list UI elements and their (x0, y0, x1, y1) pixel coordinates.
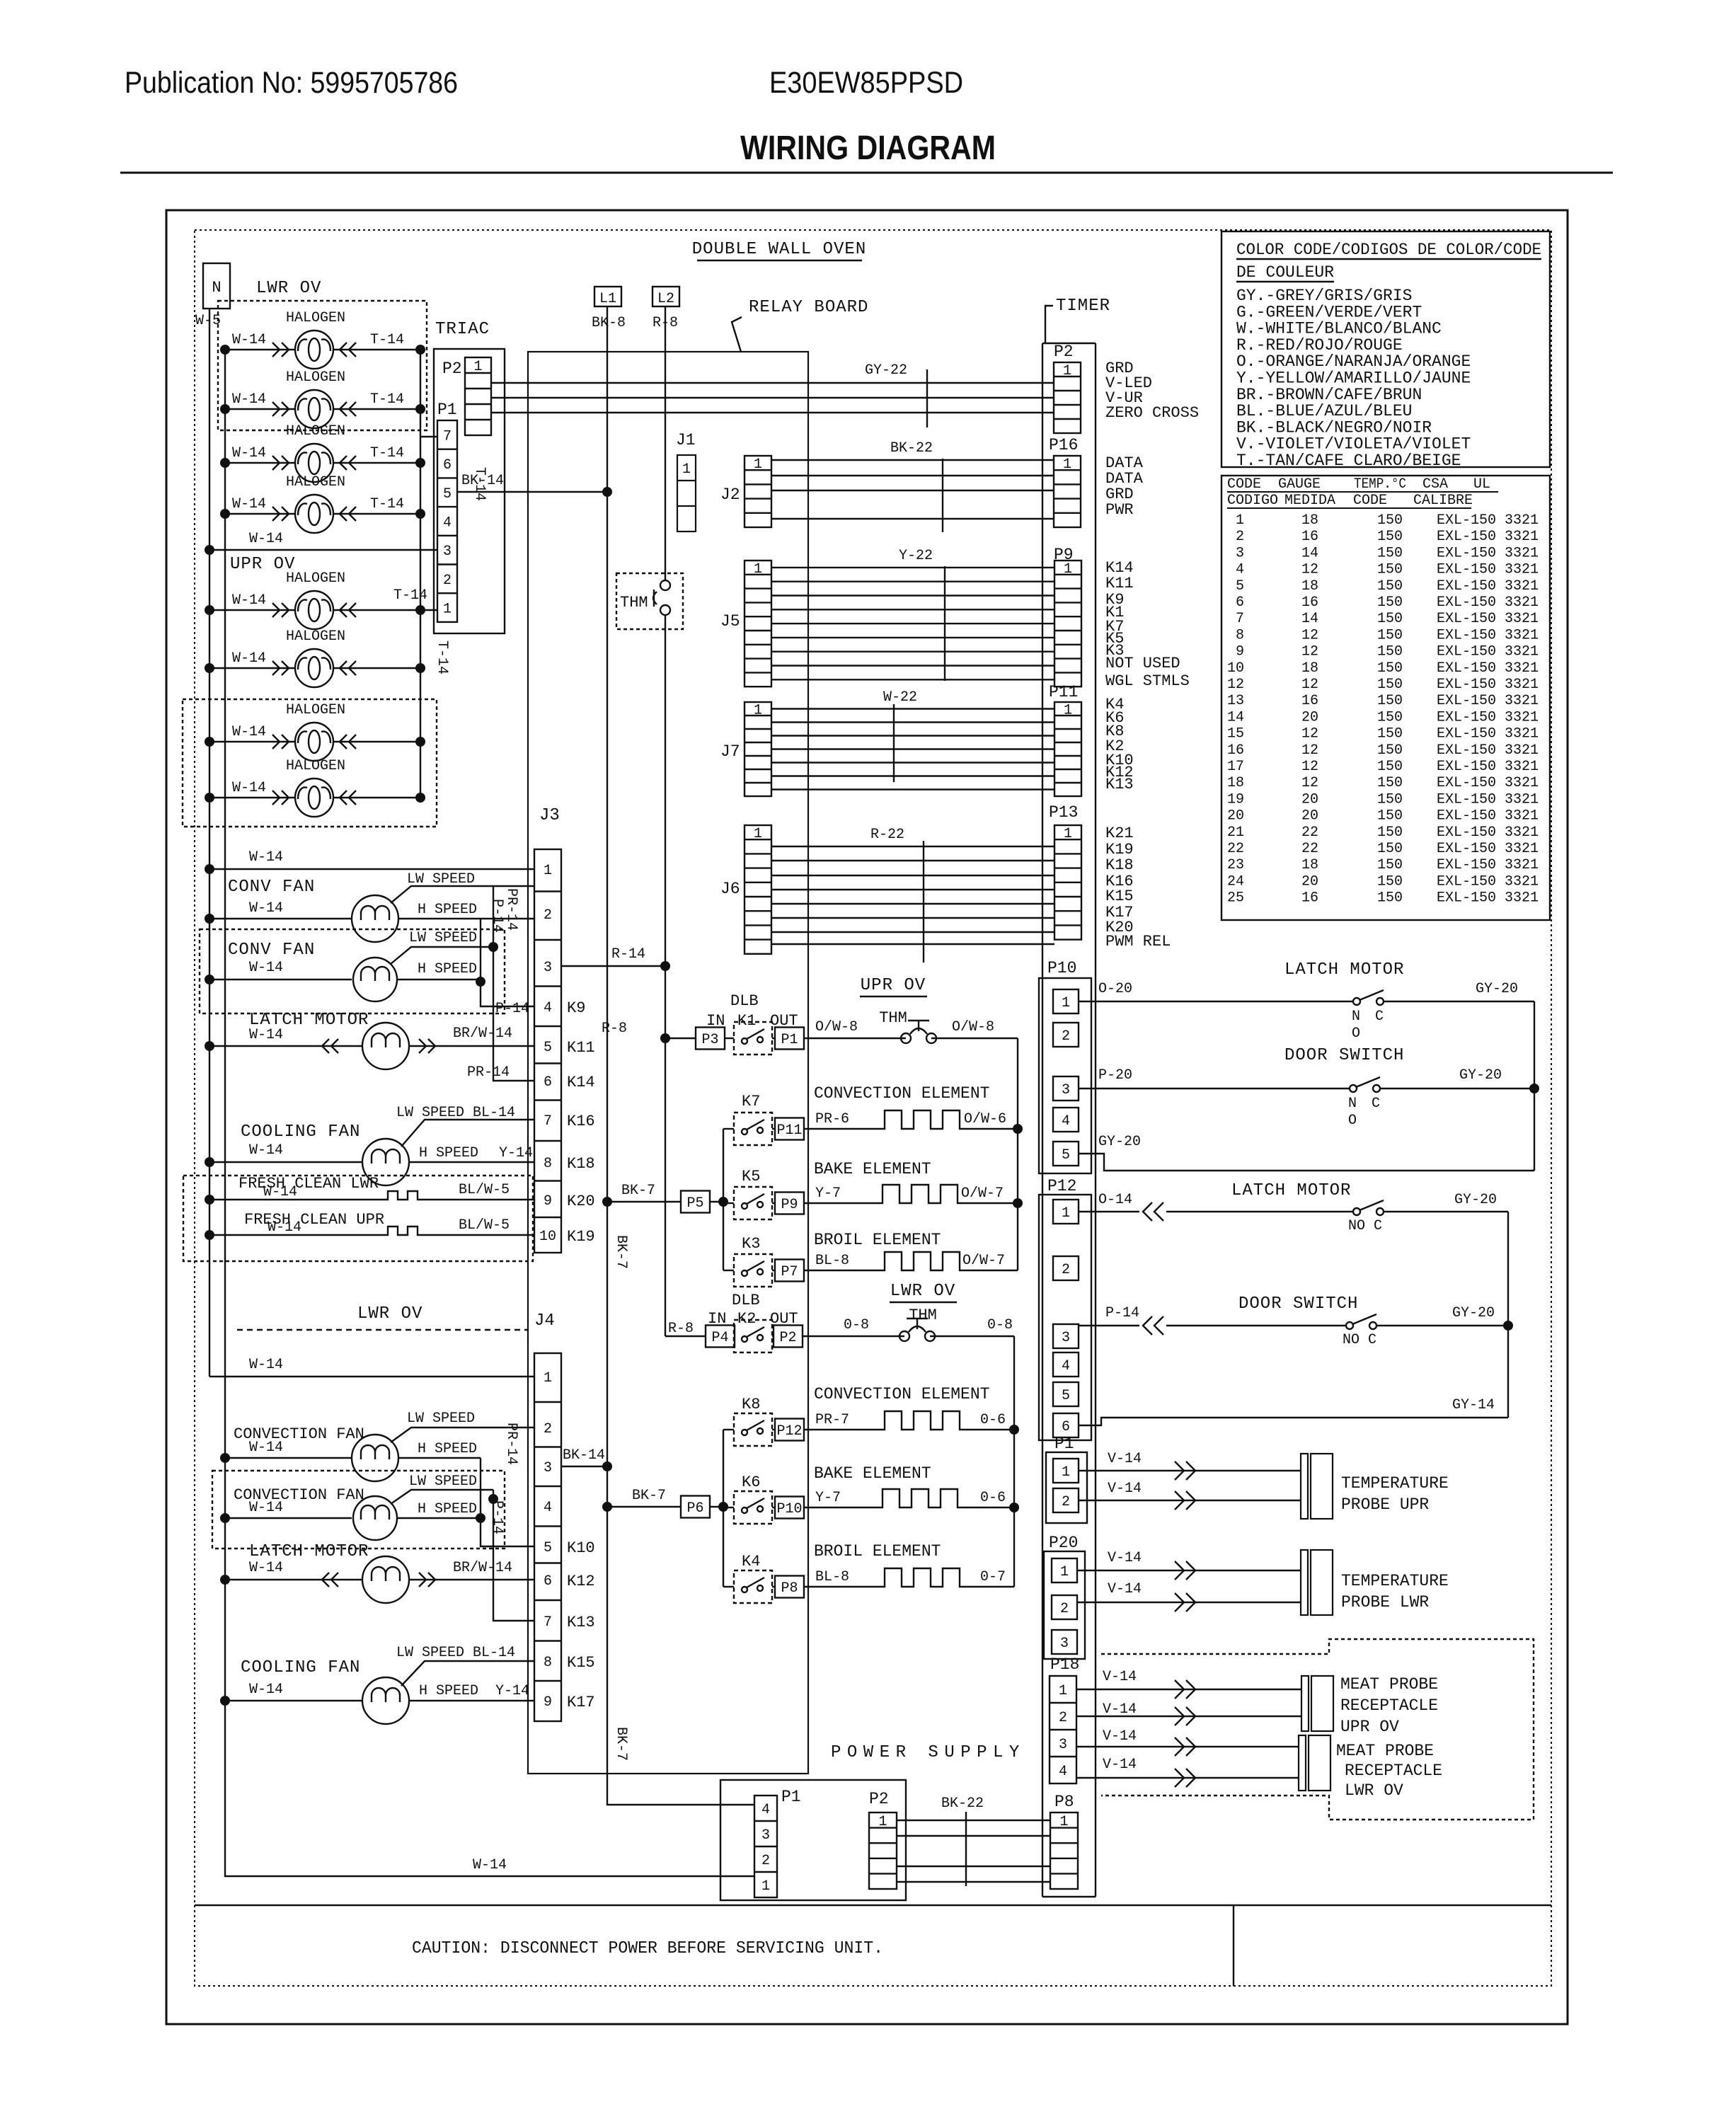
svg-text:BL-8: BL-8 (815, 1253, 849, 1269)
svg-text:W-14: W-14 (249, 1027, 283, 1043)
svg-text:UPR OV: UPR OV (861, 976, 926, 995)
halogen lamp 6 (205, 628, 425, 687)
connector P10 (relay) (772, 1497, 804, 1519)
svg-text:P12: P12 (776, 1423, 802, 1440)
svg-text:LW SPEED: LW SPEED (407, 871, 475, 887)
svg-text:K9: K9 (567, 999, 585, 1017)
svg-text:TEMP.°C: TEMP.°C (1354, 476, 1406, 493)
svg-text:2: 2 (1062, 1028, 1070, 1045)
svg-text:GY-20: GY-20 (1098, 1134, 1141, 1150)
svg-text:3: 3 (1062, 1330, 1070, 1346)
svg-text:18: 18 (1301, 660, 1318, 677)
svg-text:V-14: V-14 (1108, 1550, 1142, 1566)
svg-text:P13: P13 (1049, 803, 1078, 822)
connector P2 (relay out LWR) (772, 1326, 803, 1348)
convection fan lower (J3) (205, 930, 493, 1001)
svg-text:CODE: CODE (1227, 476, 1261, 493)
connector J5 (720, 561, 771, 687)
svg-text:PR-14: PR-14 (467, 1064, 510, 1081)
svg-text:ZERO CROSS: ZERO CROSS (1105, 404, 1199, 422)
svg-text:R-22: R-22 (870, 827, 904, 843)
svg-text:GY-20: GY-20 (1459, 1067, 1502, 1084)
svg-text:0-7: 0-7 (980, 1569, 1006, 1585)
svg-text:NOT USED: NOT USED (1105, 655, 1180, 672)
svg-text:12: 12 (1301, 644, 1318, 660)
svg-text:EXL-150 3321: EXL-150 3321 (1437, 693, 1539, 709)
svg-text:1: 1 (1060, 1564, 1069, 1580)
svg-text:W-14: W-14 (232, 724, 266, 740)
connector P1 (power supply) (754, 1788, 801, 1897)
svg-text:PWR: PWR (1105, 501, 1134, 519)
svg-text:W-14: W-14 (249, 1357, 283, 1373)
svg-text:J7: J7 (720, 742, 740, 761)
svg-text:V-14: V-14 (1103, 1669, 1137, 1685)
svg-text:H SPEED: H SPEED (418, 1441, 477, 1457)
svg-text:K5: K5 (742, 1168, 760, 1185)
svg-text:18: 18 (1301, 578, 1318, 594)
svg-text:W-14: W-14 (249, 960, 283, 976)
svg-text:CONVECTION ELEMENT: CONVECTION ELEMENT (814, 1385, 989, 1403)
svg-text:J2: J2 (720, 486, 740, 504)
svg-text:W-14: W-14 (232, 445, 266, 461)
svg-text:2: 2 (544, 1421, 552, 1437)
svg-text:LWR OV: LWR OV (1345, 1781, 1403, 1800)
svg-text:O.-ORANGE/NARANJA/ORANGE: O.-ORANGE/NARANJA/ORANGE (1236, 352, 1471, 371)
halogen lamp 4 (220, 474, 425, 533)
svg-text:BK-14: BK-14 (461, 473, 504, 489)
svg-text:13: 13 (1227, 693, 1244, 709)
relay K7 (723, 1093, 772, 1145)
svg-text:BL/W-5: BL/W-5 (459, 1217, 510, 1234)
svg-text:IN: IN (706, 1012, 725, 1030)
svg-text:150: 150 (1377, 791, 1403, 808)
meat probe receptacle LWR OV (1076, 1728, 1442, 1800)
svg-text:6: 6 (544, 1573, 552, 1590)
svg-text:2: 2 (1059, 1710, 1067, 1726)
svg-text:EXL-150 3321: EXL-150 3321 (1437, 512, 1539, 529)
label P-14 rotated (489, 899, 505, 933)
svg-text:P11: P11 (776, 1122, 802, 1139)
svg-text:T-14: T-14 (393, 587, 427, 604)
svg-text:19: 19 (1227, 791, 1244, 808)
relay K3 (723, 1235, 772, 1287)
svg-text:14: 14 (1301, 545, 1318, 561)
svg-text:MEAT PROBE: MEAT PROBE (1340, 1675, 1438, 1694)
svg-text:W-14: W-14 (232, 332, 266, 348)
svg-text:R-8: R-8 (602, 1021, 627, 1037)
connector J7 (720, 702, 771, 796)
svg-text:BR.-BROWN/CAFE/BRUN: BR.-BROWN/CAFE/BRUN (1236, 386, 1422, 404)
terminal L2 (653, 287, 679, 331)
svg-text:GY-20: GY-20 (1476, 981, 1518, 997)
svg-text:BROIL ELEMENT: BROIL ELEMENT (814, 1542, 941, 1561)
svg-text:9: 9 (1236, 644, 1244, 660)
svg-text:Publication No: 5995705786: Publication No: 5995705786 (125, 66, 458, 100)
svg-text:EXL-150 3321: EXL-150 3321 (1437, 562, 1539, 578)
svg-text:150: 150 (1377, 562, 1403, 578)
wire O bus (LWR) (1009, 1336, 1019, 1587)
label W-5 (195, 313, 221, 329)
svg-text:K13: K13 (1105, 776, 1134, 793)
temperature probe LWR (1077, 1550, 1449, 1615)
svg-text:LWR OV: LWR OV (890, 1282, 955, 1301)
svg-text:12: 12 (1301, 627, 1318, 643)
wire W-14 neutral to TRIAC P1-3 (205, 531, 437, 555)
svg-text:3: 3 (544, 960, 552, 976)
thermostat THM (LWR OV) (803, 1306, 1014, 1341)
svg-text:4: 4 (544, 1500, 552, 1516)
svg-text:22: 22 (1301, 825, 1318, 841)
svg-text:5: 5 (544, 1540, 552, 1556)
svg-text:COOLING FAN: COOLING FAN (241, 1658, 360, 1677)
convection element (LWR) (804, 1385, 1014, 1430)
svg-text:CODIGO: CODIGO (1227, 493, 1278, 509)
connector J3 (534, 806, 561, 1253)
connector P18 (1050, 1655, 1079, 1783)
svg-text:150: 150 (1377, 578, 1403, 594)
label UPR OV (860, 976, 927, 996)
svg-text:W.-WHITE/BLANCO/BLANC: W.-WHITE/BLANCO/BLANC (1236, 320, 1442, 338)
wire relay feed vertical (UPR) (710, 1129, 728, 1270)
svg-text:LW SPEED BL-14: LW SPEED BL-14 (396, 1105, 515, 1121)
svg-text:21: 21 (1227, 825, 1244, 841)
broil element (UPR) (804, 1231, 1018, 1270)
svg-text:7: 7 (443, 428, 452, 444)
svg-text:T-14: T-14 (370, 391, 404, 408)
svg-text:150: 150 (1377, 611, 1403, 627)
svg-text:K18: K18 (1105, 856, 1134, 874)
power supply box (720, 1743, 1025, 1900)
halogen lamp 2 (220, 369, 425, 428)
svg-text:BAKE ELEMENT: BAKE ELEMENT (814, 1464, 931, 1483)
thermostat THM (line) (616, 573, 683, 629)
svg-text:1: 1 (878, 1814, 887, 1830)
svg-text:BL.-BLUE/AZUL/BLEU: BL.-BLUE/AZUL/BLEU (1236, 402, 1412, 420)
connector J1 (676, 431, 696, 532)
svg-text:1: 1 (1062, 995, 1070, 1011)
svg-text:FRESH CLEAN LWR: FRESH CLEAN LWR (238, 1175, 379, 1193)
svg-text:150: 150 (1377, 660, 1403, 677)
svg-text:P20: P20 (1049, 1534, 1078, 1552)
thermostat THM (UPR OV) (804, 1009, 1018, 1043)
color code legend box (1221, 231, 1550, 470)
halogen lamp 5 (205, 570, 425, 629)
svg-text:O/W-6: O/W-6 (964, 1111, 1006, 1127)
svg-text:DOOR SWITCH: DOOR SWITCH (1284, 1046, 1404, 1065)
svg-text:H SPEED: H SPEED (419, 1683, 478, 1699)
svg-text:EXL-150 3321: EXL-150 3321 (1437, 742, 1539, 759)
svg-text:W-14: W-14 (232, 592, 266, 609)
svg-text:MEAT PROBE: MEAT PROBE (1336, 1742, 1434, 1760)
svg-text:22: 22 (1301, 841, 1318, 857)
svg-text:W-14: W-14 (232, 780, 266, 796)
wire BK line bus (602, 306, 754, 1805)
svg-text:12: 12 (1301, 677, 1318, 693)
svg-text:K13: K13 (567, 1614, 595, 1631)
svg-text:4: 4 (443, 515, 452, 531)
svg-text:CONVECTION ELEMENT: CONVECTION ELEMENT (814, 1084, 989, 1103)
svg-text:1: 1 (544, 1370, 552, 1386)
connector P16 (timer) (1049, 436, 1081, 527)
svg-text:1: 1 (754, 561, 762, 578)
svg-text:K21: K21 (1105, 825, 1134, 842)
svg-text:150: 150 (1377, 644, 1403, 660)
svg-text:18: 18 (1301, 512, 1318, 529)
svg-text:O/W-8: O/W-8 (815, 1019, 858, 1035)
svg-text:4: 4 (1236, 562, 1244, 578)
svg-text:CODE: CODE (1353, 493, 1387, 509)
meat probe dashed enclosure (1101, 1639, 1534, 1820)
svg-text:16: 16 (1301, 529, 1318, 545)
connector P1 (relay out UPR) (772, 1028, 804, 1050)
svg-text:3: 3 (1060, 1636, 1069, 1652)
svg-text:Y-14: Y-14 (499, 1145, 533, 1161)
svg-text:PR-7: PR-7 (815, 1412, 849, 1428)
svg-text:THM: THM (879, 1009, 907, 1027)
connector P20 (1044, 1534, 1085, 1659)
svg-text:1: 1 (544, 863, 552, 879)
svg-text:5: 5 (1236, 578, 1244, 594)
svg-text:W-14: W-14 (249, 531, 283, 547)
fresh clean UPR sensor (205, 1211, 534, 1240)
convection fan lower (J3) dashed enclosure (200, 929, 505, 1013)
connector P1 (TRIAC) (437, 401, 457, 622)
svg-text:EXL-150 3321: EXL-150 3321 (1437, 627, 1539, 643)
svg-text:K1: K1 (737, 1012, 756, 1030)
svg-text:EXL-150 3321: EXL-150 3321 (1437, 529, 1539, 545)
svg-text:WGL STMLS: WGL STMLS (1105, 672, 1190, 690)
wire bundle Y-22 J5 to P9 (771, 548, 1054, 681)
fresh clean dashed enclosure (183, 1176, 533, 1261)
svg-text:10: 10 (539, 1229, 556, 1245)
convection fan upper (J3) (205, 871, 534, 942)
svg-text:LW SPEED BL-14: LW SPEED BL-14 (396, 1645, 515, 1661)
svg-text:BK-7: BK-7 (632, 1488, 666, 1504)
svg-text:EXL-150 3321: EXL-150 3321 (1437, 759, 1539, 775)
relay K5 (723, 1168, 772, 1219)
svg-text:9: 9 (544, 1694, 552, 1711)
svg-text:12: 12 (1301, 775, 1318, 791)
svg-text:6: 6 (1236, 594, 1244, 611)
svg-text:K6: K6 (742, 1474, 760, 1491)
svg-text:DOUBLE WALL OVEN: DOUBLE WALL OVEN (692, 240, 866, 259)
connector P12 (1039, 1177, 1091, 1440)
svg-text:3: 3 (1062, 1082, 1070, 1098)
svg-text:2: 2 (1236, 529, 1244, 545)
svg-text:K20: K20 (567, 1193, 595, 1210)
svg-text:150: 150 (1377, 775, 1403, 791)
wire bundle W-22 J7 to P11 (771, 689, 1054, 790)
svg-text:150: 150 (1377, 742, 1403, 759)
svg-text:N: N (1352, 1009, 1360, 1025)
label W-14 power supply wire (473, 1857, 507, 1873)
convection fan lower (J4) (220, 1474, 493, 1540)
svg-text:UPR OV: UPR OV (1340, 1718, 1399, 1736)
relay K4 (723, 1553, 772, 1603)
svg-text:P9: P9 (781, 1197, 798, 1213)
svg-text:25: 25 (1227, 890, 1244, 907)
svg-text:150: 150 (1377, 825, 1403, 841)
svg-text:GY-20: GY-20 (1454, 1192, 1497, 1208)
svg-text:7: 7 (544, 1614, 552, 1631)
svg-text:T-14: T-14 (370, 445, 404, 461)
svg-text:0-6: 0-6 (980, 1412, 1006, 1428)
door switch circuit (lower) (1079, 1294, 1513, 1348)
svg-text:HALOGEN: HALOGEN (286, 570, 345, 587)
connector P12 (relay) (772, 1419, 804, 1441)
wire P-14 vertical to J3-4 (476, 919, 534, 1017)
halogen lamp 7 (205, 702, 425, 761)
svg-text:1: 1 (1062, 1464, 1070, 1481)
wire BK-14 J4-3 to BK bus (561, 1447, 607, 1466)
svg-text:GY.-GREY/GRIS/GRIS: GY.-GREY/GRIS/GRIS (1236, 287, 1412, 305)
svg-text:EXL-150 3321: EXL-150 3321 (1437, 857, 1539, 873)
svg-text:P-20: P-20 (1098, 1067, 1132, 1084)
cooling fan (J4) (220, 1645, 534, 1724)
svg-text:V-14: V-14 (1108, 1581, 1142, 1597)
latch motor (J4) (220, 1542, 534, 1603)
svg-text:1: 1 (761, 1878, 770, 1895)
connector P10 (1039, 959, 1091, 1173)
svg-text:EXL-150 3321: EXL-150 3321 (1437, 873, 1539, 890)
svg-text:THM: THM (620, 594, 648, 611)
svg-text:P-14: P-14 (1105, 1305, 1139, 1321)
svg-text:CSA: CSA (1422, 476, 1448, 493)
svg-text:J1: J1 (676, 431, 696, 449)
svg-text:NO C: NO C (1343, 1332, 1376, 1348)
P2 timer pin labels (1105, 360, 1199, 422)
svg-text:CONV FAN: CONV FAN (228, 941, 315, 960)
svg-text:K16: K16 (567, 1113, 595, 1130)
svg-text:P-14: P-14 (489, 1500, 505, 1534)
svg-text:BAKE ELEMENT: BAKE ELEMENT (814, 1160, 931, 1178)
wire BK-7 to P5 (607, 1183, 681, 1202)
cooling fan (J3) (205, 1105, 534, 1185)
svg-text:R-8: R-8 (668, 1321, 694, 1337)
svg-text:1: 1 (1063, 456, 1071, 473)
connector P5 (681, 1191, 710, 1213)
svg-text:LW SPEED: LW SPEED (409, 1474, 477, 1490)
svg-text:P2: P2 (869, 1790, 889, 1808)
svg-text:5: 5 (443, 486, 452, 502)
connector P2 (TRIAC) (442, 357, 491, 435)
P11 pin labels (1105, 696, 1134, 793)
svg-text:P2: P2 (442, 360, 462, 378)
svg-text:EXL-150 3321: EXL-150 3321 (1437, 709, 1539, 725)
svg-text:RELAY BOARD: RELAY BOARD (749, 298, 868, 317)
svg-text:150: 150 (1377, 890, 1403, 907)
svg-text:K11: K11 (567, 1039, 595, 1057)
halogen lamp 8 (205, 758, 425, 817)
convection fan upper (J4) (220, 1411, 534, 1481)
header publication number (125, 66, 458, 100)
svg-text:L1: L1 (599, 291, 616, 307)
svg-text:O: O (1348, 1113, 1357, 1129)
svg-text:EXL-150 3321: EXL-150 3321 (1437, 545, 1539, 561)
svg-text:BL-8: BL-8 (815, 1569, 849, 1585)
svg-text:BK.-BLACK/NEGRO/NOIR: BK.-BLACK/NEGRO/NOIR (1236, 418, 1432, 437)
svg-text:EXL-150 3321: EXL-150 3321 (1437, 890, 1539, 907)
latch motor circuit (upper) (1079, 960, 1534, 1042)
svg-text:0-6: 0-6 (980, 1490, 1006, 1506)
svg-text:23: 23 (1227, 857, 1244, 873)
svg-text:1: 1 (1059, 1814, 1068, 1830)
svg-text:P18: P18 (1050, 1655, 1079, 1674)
svg-text:K3: K3 (742, 1235, 760, 1253)
svg-text:Y-14: Y-14 (495, 1683, 529, 1699)
svg-text:16: 16 (1301, 594, 1318, 611)
relay K1 DLB (UPR) (706, 992, 798, 1055)
svg-text:P3: P3 (701, 1032, 718, 1048)
svg-text:6: 6 (443, 457, 452, 473)
svg-text:TEMPERATURE: TEMPERATURE (1341, 1474, 1449, 1493)
svg-text:6: 6 (544, 1074, 552, 1091)
terminal L1 (592, 287, 626, 331)
svg-text:1: 1 (443, 602, 452, 618)
svg-text:3: 3 (761, 1827, 770, 1844)
header model number E30EW85PPSD (769, 66, 963, 100)
svg-text:16: 16 (1301, 890, 1318, 907)
meat probe receptacle UPR OV (1076, 1669, 1438, 1736)
svg-text:Y-22: Y-22 (899, 548, 933, 564)
relay board outline (528, 298, 868, 1774)
svg-text:16: 16 (1301, 693, 1318, 709)
svg-text:K11: K11 (1105, 575, 1134, 592)
svg-text:DOOR SWITCH: DOOR SWITCH (1238, 1294, 1358, 1314)
svg-text:150: 150 (1377, 709, 1403, 725)
svg-text:12: 12 (1227, 677, 1244, 693)
svg-text:150: 150 (1377, 759, 1403, 775)
wire gauge table (1221, 476, 1550, 920)
svg-text:FRESH CLEAN UPR: FRESH CLEAN UPR (244, 1211, 384, 1229)
connector J6 (720, 825, 771, 954)
svg-text:1: 1 (754, 826, 762, 842)
P16 pin labels (1105, 454, 1144, 519)
halogen lamp 3 (220, 423, 425, 482)
svg-text:BK-14: BK-14 (563, 1447, 605, 1464)
svg-text:HALOGEN: HALOGEN (286, 474, 345, 490)
svg-text:7: 7 (1236, 611, 1244, 627)
svg-text:GY-14: GY-14 (1452, 1397, 1495, 1413)
svg-text:P16: P16 (1049, 436, 1078, 454)
svg-text:LATCH MOTOR: LATCH MOTOR (1284, 960, 1404, 980)
svg-text:O-14: O-14 (1098, 1192, 1132, 1208)
label PR-14 rotated (J4) (503, 1423, 519, 1465)
svg-text:4: 4 (761, 1802, 770, 1818)
wire bundle R-22 J6 to P13 (771, 827, 1054, 963)
latch motor circuit (lower) (1079, 1181, 1508, 1234)
svg-text:HALOGEN: HALOGEN (286, 310, 345, 326)
wire bundle BK-22 J2 to P16 (771, 440, 1054, 532)
svg-text:8: 8 (1236, 627, 1244, 643)
bake element (LWR) (804, 1464, 1014, 1507)
svg-text:G.-GREEN/VERDE/VERT: G.-GREEN/VERDE/VERT (1236, 303, 1422, 321)
svg-text:T-14: T-14 (370, 332, 404, 348)
svg-text:Y.-YELLOW/AMARILLO/JAUNE: Y.-YELLOW/AMARILLO/JAUNE (1236, 369, 1471, 388)
svg-text:J5: J5 (720, 612, 740, 631)
label T-14 rotated on return bus (434, 640, 450, 674)
svg-text:1: 1 (1059, 1683, 1067, 1699)
svg-text:EXL-150 3321: EXL-150 3321 (1437, 660, 1539, 677)
svg-text:1: 1 (1062, 1205, 1070, 1222)
label P-14 rotated (J4) (489, 1500, 505, 1534)
svg-text:Y-7: Y-7 (815, 1185, 841, 1202)
svg-text:EXL-150 3321: EXL-150 3321 (1437, 808, 1539, 825)
svg-text:BR/W-14: BR/W-14 (453, 1026, 512, 1042)
svg-text:K4: K4 (742, 1553, 760, 1570)
svg-text:W-14: W-14 (249, 1560, 283, 1576)
svg-text:HALOGEN: HALOGEN (286, 628, 345, 645)
